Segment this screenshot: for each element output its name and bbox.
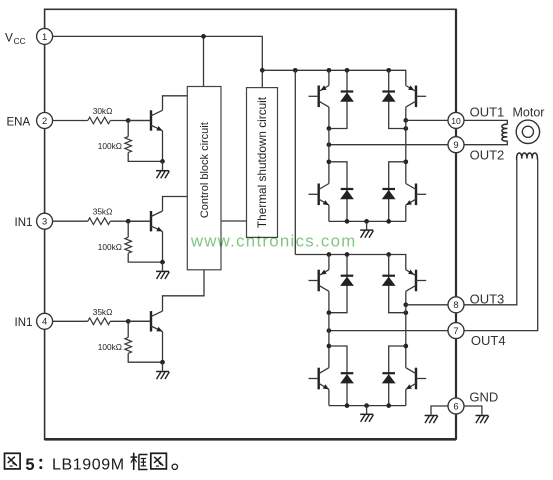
- transistor bridge upper-left pnp (ch2): [309, 270, 329, 292]
- diode upper-right (ch1): [382, 70, 406, 128]
- label OUT1: [470, 104, 505, 119]
- transistor bridge upper-right pnp (ch2): [406, 270, 426, 292]
- wire long vertical to bridge 3 rail: [294, 70, 296, 254]
- wire input series (ENA): [45, 120, 151, 122]
- pin 8: [448, 297, 464, 313]
- wire bottom rail (ch2): [329, 405, 406, 407]
- node dot rail long vertical: [293, 68, 298, 73]
- wire motor coil to OUT2: [456, 141, 507, 145]
- resistor 100k&#937; vertical (ENA): [125, 121, 163, 162]
- transistor bridge lower-right npn (ch1): [406, 184, 426, 206]
- svg-text:CC: CC: [14, 36, 26, 46]
- node dot rail diode left (ch1): [345, 219, 350, 224]
- coil motor winding 1 vertical: [502, 124, 507, 141]
- svg-text:OUT1: OUT1: [470, 104, 505, 119]
- wire OUT lower line to pin (ch1): [329, 144, 456, 146]
- svg-text:ENA: ENA: [7, 116, 31, 128]
- label Motor: [513, 105, 545, 119]
- ground symbol right of pin 6: [476, 416, 489, 424]
- wire between control and thermal boxes: [221, 220, 247, 222]
- pin 7: [448, 323, 464, 339]
- wire left column vertical (ch2): [328, 313, 330, 368]
- ground symbol bridge (ch2): [360, 414, 373, 422]
- label IN1 pin4: [15, 317, 33, 329]
- diode lower-left (ch2): [329, 346, 354, 406]
- svg-text:IN1: IN1: [15, 217, 33, 229]
- wire upper-left emitter (ch1): [328, 70, 330, 85]
- wire bottom rail (ch1): [329, 220, 406, 222]
- node dot right OUT node (ch1): [403, 118, 408, 123]
- label IN1 pin3: [15, 217, 33, 229]
- ground symbol (ENA): [156, 171, 169, 179]
- ground symbol bridge (ch1): [360, 230, 373, 238]
- wire lower-right emitter (ch1): [405, 205, 407, 221]
- node dot OUT lower left (ch2): [327, 328, 332, 333]
- node dot rail left diode: [345, 68, 350, 73]
- svg-text:Control block circuit: Control block circuit: [199, 122, 211, 218]
- transistor bridge lower-left npn (ch1): [309, 184, 329, 206]
- wire GND right ground: [456, 406, 482, 415]
- wire collector (IN1 pin4): [163, 270, 205, 311]
- svg-text:OUT2: OUT2: [470, 147, 505, 162]
- label GND: [469, 390, 498, 405]
- label OUT4: [471, 333, 506, 348]
- node dot right jog (ch1): [403, 159, 408, 164]
- svg-text:6: 6: [453, 400, 458, 411]
- label OUT3: [470, 292, 505, 307]
- svg-text:2: 2: [42, 115, 47, 126]
- label 35k&#937; (IN1 pin3): [93, 207, 113, 217]
- diode lower-right (ch2): [382, 346, 406, 406]
- svg-text:LB1909M: LB1909M: [52, 457, 125, 474]
- diode lower-right (ch1): [382, 162, 406, 222]
- svg-text:8: 8: [453, 299, 458, 310]
- svg-text:100kΩ: 100kΩ: [98, 242, 122, 252]
- node dot rail diode left (ch2): [345, 403, 350, 408]
- label 35k&#937; (IN1 pin4): [93, 307, 113, 317]
- wire upper-left collector (ch1): [328, 107, 330, 128]
- transistor bridge lower-right npn (ch2): [406, 368, 426, 390]
- node dot VCC/control feed: [201, 34, 206, 39]
- svg-text:Thermal shutdown circuit: Thermal shutdown circuit: [255, 96, 269, 228]
- wire top rail bridge 3: [295, 255, 406, 270]
- wire ground stem (IN1 pin3): [162, 262, 164, 271]
- wire ground stem (ENA): [162, 161, 164, 170]
- svg-text:1: 1: [42, 31, 47, 42]
- resistor 100k&#937; vertical (IN1 pin3): [125, 221, 163, 262]
- node dot emitter/ground (IN1 pin4): [160, 360, 165, 365]
- node dot base junction (IN1 pin3): [126, 219, 131, 224]
- motor circle symbol: [516, 120, 539, 143]
- node dot rail ground tap (ch1): [364, 219, 369, 224]
- node dot left jog (ch1): [327, 159, 332, 164]
- svg-text:9: 9: [453, 139, 458, 150]
- label ENA: [7, 116, 31, 128]
- node dot rail diode right (ch2): [386, 403, 391, 408]
- caption: figure 5 LB1909M block diagram: [5, 453, 178, 474]
- wire control block VCC feed: [203, 36, 205, 86]
- node dot rail diode right (ch1): [386, 219, 391, 224]
- node dot left collector junction (ch1): [327, 126, 332, 131]
- wire right column vertical (ch1): [405, 120, 407, 183]
- node dot OUT lower left (ch1): [327, 142, 332, 147]
- pin 1: [37, 28, 53, 44]
- wire upper-left collector (ch2): [328, 291, 330, 312]
- label 30k&#937; (ENA): [93, 106, 113, 116]
- node dot rail2 left emitter: [327, 252, 332, 257]
- coil motor winding 2 horizontal: [517, 153, 538, 160]
- wire collector (IN1 pin3): [163, 197, 188, 212]
- node dot rail2 left diode: [345, 252, 350, 257]
- ground symbol left of pin 6: [425, 416, 438, 424]
- transistor bridge lower-left npn (ch2): [309, 368, 329, 390]
- wire right column vertical (ch2): [405, 305, 407, 368]
- label 100k&#937; (IN1 pin3): [98, 242, 122, 252]
- svg-text:OUT3: OUT3: [470, 292, 505, 307]
- diode upper-left (ch2): [329, 255, 354, 313]
- transistor input npn (ENA): [128, 110, 162, 130]
- transistor input npn (IN1 pin3): [128, 211, 162, 231]
- node dot rail ground tap (ch2): [364, 403, 369, 408]
- wire upper-right collector (ch1): [405, 107, 407, 120]
- svg-text:5: 5: [25, 456, 34, 474]
- wire ground tap (ch1): [366, 221, 368, 229]
- svg-text:35kΩ: 35kΩ: [93, 207, 113, 217]
- svg-text:IN1: IN1: [15, 317, 33, 329]
- label OUT2: [470, 147, 505, 162]
- svg-text:100kΩ: 100kΩ: [98, 141, 122, 151]
- node dot right diode junction (ch1): [403, 126, 408, 131]
- wire upper-left emitter (ch2): [328, 255, 330, 270]
- transistor bridge upper-right pnp (ch1): [406, 85, 426, 107]
- wire ground stem (IN1 pin4): [162, 362, 164, 371]
- node dot rail right diode: [386, 68, 391, 73]
- wire OUT1 to motor coil: [456, 120, 507, 124]
- wire OUT upper to pin (ch2): [406, 304, 456, 306]
- transistor bridge upper-left pnp (ch1): [309, 85, 329, 107]
- wire emitter (IN1 pin4): [162, 332, 164, 363]
- wire upper-right collector (ch2): [405, 291, 407, 305]
- transistor input npn (IN1 pin4): [128, 311, 162, 331]
- svg-text:www.cntronics.com: www.cntronics.com: [190, 231, 357, 250]
- resistor 35k&#937; (IN1 pin4): [88, 318, 111, 325]
- wire top rail bridge 1: [262, 70, 406, 85]
- svg-text:7: 7: [453, 325, 458, 336]
- pin 6: [448, 398, 464, 414]
- svg-text:10: 10: [451, 116, 461, 126]
- wire GND left ground: [431, 406, 456, 415]
- IC outline border: [45, 9, 456, 439]
- ground symbol (IN1 pin3): [156, 271, 169, 279]
- wire lower-left emitter (ch2): [328, 389, 330, 405]
- control block circuit box: [187, 87, 221, 270]
- svg-text:OUT4: OUT4: [471, 333, 506, 348]
- resistor 30k&#937; (ENA): [88, 117, 111, 124]
- svg-text:V: V: [5, 31, 13, 45]
- watermark www.cntronics.com: [190, 231, 357, 250]
- wire emitter (ENA): [162, 131, 164, 162]
- pin 10: [448, 112, 464, 128]
- wire lower-left emitter (ch1): [328, 205, 330, 221]
- pin 3: [37, 213, 53, 229]
- node dot right diode junction (ch2): [403, 310, 408, 315]
- node dot rail left emitter: [327, 68, 332, 73]
- diode upper-left (ch1): [329, 70, 354, 128]
- node dot base junction (IN1 pin4): [126, 319, 131, 324]
- node dot left collector junction (ch2): [327, 310, 332, 315]
- node dot emitter/ground (IN1 pin3): [160, 260, 165, 265]
- ground symbol (IN1 pin4): [156, 372, 169, 380]
- label VCC: [5, 31, 26, 47]
- thermal shutdown circuit box: [247, 88, 278, 238]
- node dot VCC rail tee: [260, 68, 265, 73]
- pin 9: [448, 137, 464, 153]
- diode upper-right (ch2): [382, 255, 406, 313]
- node dot left jog (ch2): [327, 344, 332, 349]
- wire OUT lower line to pin (ch2): [329, 330, 456, 332]
- wire VCC from pin 1 to control block and thermal rail: [45, 36, 263, 70]
- node dot emitter/ground (ENA): [160, 159, 165, 164]
- resistor 100k&#937; vertical (IN1 pin4): [125, 321, 163, 362]
- wire OUT3 to coil 2 left: [456, 160, 517, 305]
- label 100k&#937; (IN1 pin4): [98, 342, 122, 352]
- svg-text:100kΩ: 100kΩ: [98, 342, 122, 352]
- node dot base junction (ENA): [126, 118, 131, 123]
- wire emitter (IN1 pin3): [162, 231, 164, 262]
- pin 2: [37, 113, 53, 129]
- svg-text:3: 3: [42, 216, 47, 227]
- svg-text:GND: GND: [469, 390, 498, 405]
- label 100k&#937; (ENA): [98, 141, 122, 151]
- wire thermal box VCC feed: [261, 70, 263, 87]
- svg-text:30kΩ: 30kΩ: [93, 106, 113, 116]
- wire ground tap (ch2): [366, 406, 368, 414]
- node dot right jog (ch2): [403, 344, 408, 349]
- svg-text:4: 4: [42, 316, 47, 327]
- node dot rail2 right diode: [386, 252, 391, 257]
- wire input series (IN1 pin4): [45, 320, 151, 322]
- wire lower-right emitter (ch2): [405, 389, 407, 405]
- svg-text:Motor: Motor: [513, 105, 545, 119]
- svg-text:35kΩ: 35kΩ: [93, 307, 113, 317]
- node dot right OUT node (ch2): [403, 302, 408, 307]
- wire collector (ENA): [163, 96, 188, 111]
- diode lower-left (ch1): [329, 162, 354, 222]
- wire OUT upper to pin (ch1): [406, 119, 456, 121]
- wire input series (IN1 pin3): [45, 220, 151, 222]
- pin 4: [37, 313, 53, 329]
- resistor 35k&#937; (IN1 pin3): [88, 218, 111, 225]
- wire left column vertical (ch1): [328, 129, 330, 184]
- wire OUT4 to coil 2 right: [456, 160, 538, 331]
